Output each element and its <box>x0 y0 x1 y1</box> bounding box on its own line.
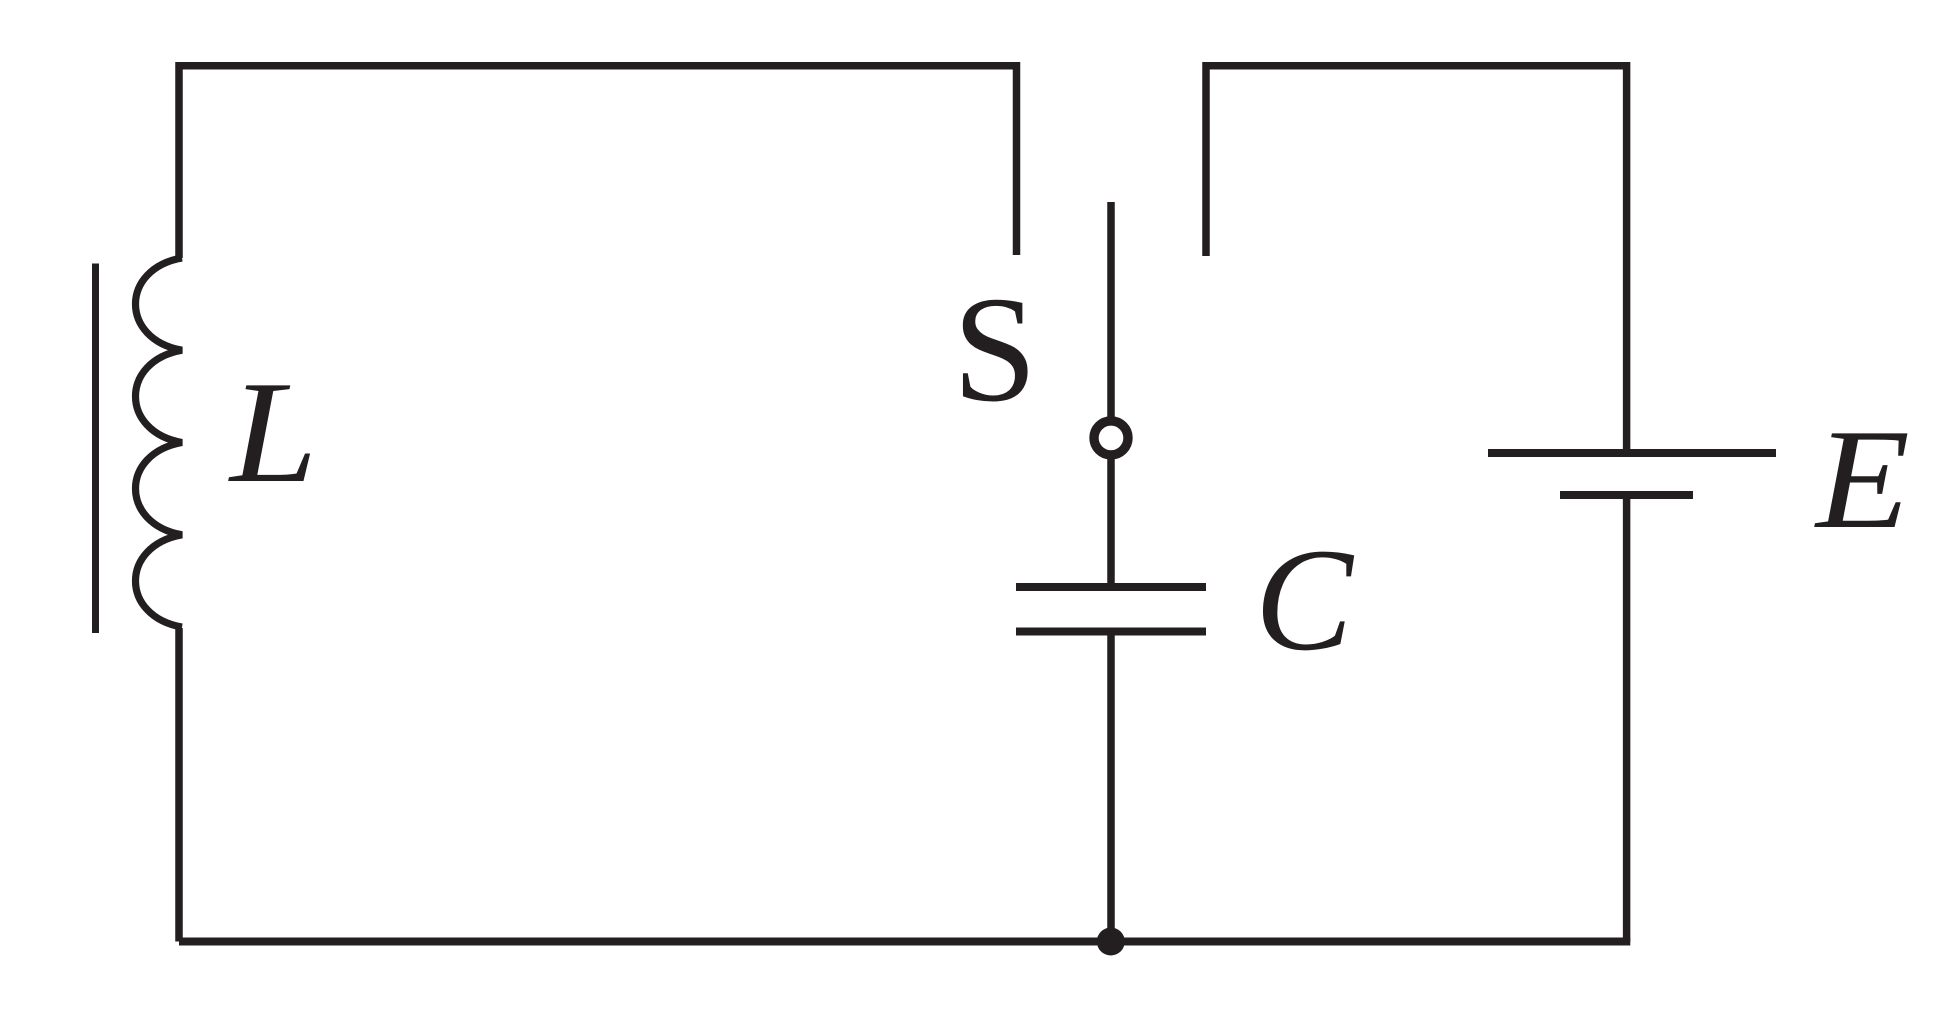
capacitor C bottom plate <box>1016 628 1206 636</box>
wire: top rail of right loop with corners <box>1206 66 1627 449</box>
wire: top rail of left loop with left corner <box>179 66 1017 258</box>
capacitor C top plate <box>1016 583 1206 591</box>
wire: capacitor to bottom rail <box>1107 632 1115 942</box>
inductor core bar <box>92 264 99 634</box>
svg-text:S: S <box>953 265 1037 433</box>
inductor L coil (4 arcs) <box>136 258 183 627</box>
switch S pivot circle <box>1094 421 1128 455</box>
battery E short plate <box>1560 491 1693 499</box>
wire: battery to bottom rail <box>1623 495 1631 942</box>
svg-text:C: C <box>1255 518 1355 681</box>
wire: bottom rail <box>179 938 1630 946</box>
wire: switch to capacitor <box>1107 458 1115 587</box>
node: junction dot <box>1097 928 1125 956</box>
battery E long plate <box>1488 449 1776 457</box>
svg-text:L: L <box>228 351 318 513</box>
switch S lever <box>1107 202 1115 421</box>
svg-text:E: E <box>1814 401 1910 559</box>
wire: left vertical below inductor down to bottom rail <box>175 628 183 942</box>
